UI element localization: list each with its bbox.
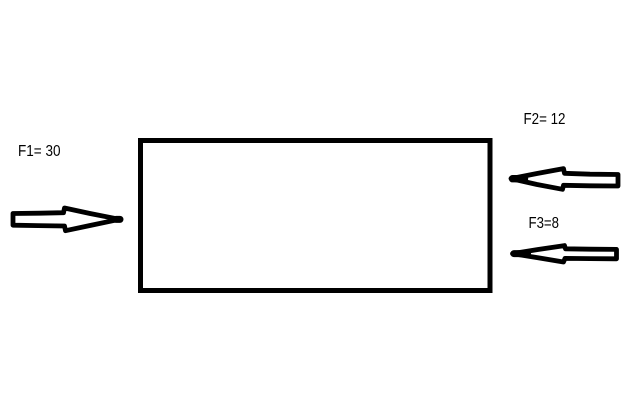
svg-text:F1= 30: F1= 30 [18, 143, 61, 160]
box (free body rectangle) [141, 141, 491, 291]
force arrow F3 (points left) [513, 246, 617, 262]
F3 arrow tip blob [514, 250, 528, 257]
F1 arrow tip blob [116, 216, 120, 223]
force arrow F1 (points right) [13, 208, 120, 231]
force arrow F2 (points left) [511, 169, 618, 190]
svg-text:F3=8: F3=8 [529, 215, 560, 232]
svg-text:F2= 12: F2= 12 [524, 111, 566, 128]
F2 arrow tip blob [513, 175, 525, 182]
